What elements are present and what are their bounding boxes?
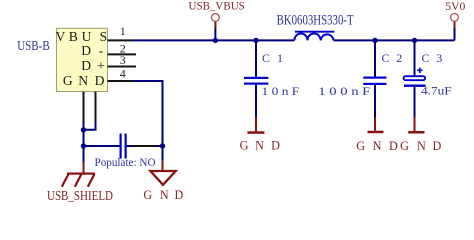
capacitor C2 bottom plate xyxy=(363,83,386,85)
capacitor C3 bottom plate xyxy=(404,85,426,87)
connector J USB-B body xyxy=(57,28,108,91)
wire populate cap left xyxy=(84,145,120,147)
wire C3 lower stem red xyxy=(414,117,416,131)
svg-text:USB_VBUS: USB_VBUS xyxy=(189,0,245,13)
svg-text:3: 3 xyxy=(120,53,126,67)
svg-text:1: 1 xyxy=(277,51,283,65)
wire left shield pin down xyxy=(83,122,85,163)
svg-text:D: D xyxy=(81,58,91,73)
svg-text:D: D xyxy=(175,188,184,202)
power usb_shield diagonal 2 xyxy=(75,174,82,187)
inductor L1 top bar xyxy=(295,31,334,33)
capacitor C3 top plate pill xyxy=(404,76,426,80)
wire C2 lower stem blue xyxy=(374,85,376,117)
svg-text:1: 1 xyxy=(120,24,126,38)
svg-text:4: 4 xyxy=(120,66,126,80)
svg-text:-: - xyxy=(99,43,104,58)
port USB_VBUS circle xyxy=(212,14,220,22)
capacitor C2 top plate xyxy=(363,77,386,79)
svg-text:USB-B: USB-B xyxy=(17,39,50,54)
wire USB_VBUS port stem blue xyxy=(214,28,216,41)
svg-text:N: N xyxy=(160,188,169,202)
wire populate cap right black segment xyxy=(134,145,155,147)
svg-text:D: D xyxy=(389,139,398,153)
svg-text:D: D xyxy=(271,138,280,152)
svg-text:2: 2 xyxy=(396,51,402,65)
port 5V0 circle xyxy=(451,14,459,22)
junction dot C3 xyxy=(412,38,417,43)
junction dot shield jog xyxy=(81,127,86,132)
svg-text:S: S xyxy=(100,29,108,44)
power usb_shield bar xyxy=(67,173,95,175)
svg-text:5V0: 5V0 xyxy=(445,0,465,13)
designator C1 xyxy=(262,51,283,65)
pin name VBUS xyxy=(55,29,107,44)
wire populate cap right blue to tee xyxy=(155,145,163,147)
svg-text:G: G xyxy=(63,73,73,88)
wire VBUS rail left segment xyxy=(132,39,295,41)
wire C3 lower stem blue xyxy=(414,87,416,117)
wire C2 upper stem xyxy=(374,40,376,76)
wire C1 lower stem blue xyxy=(255,85,257,117)
svg-text:N: N xyxy=(373,139,382,153)
net label GND triangle xyxy=(143,188,183,202)
net label GND C3 xyxy=(400,139,441,153)
svg-text:USB_SHIELD: USB_SHIELD xyxy=(47,189,113,204)
junction dot C2 xyxy=(372,38,377,43)
designator C2 xyxy=(382,51,403,65)
svg-text:V: V xyxy=(55,29,65,44)
junction dot populate tee xyxy=(81,143,86,148)
svg-text:C: C xyxy=(262,51,270,65)
svg-text:+: + xyxy=(97,58,105,73)
svg-text:G: G xyxy=(356,139,365,153)
wire C2 lower stem red xyxy=(374,117,376,131)
svg-text:D: D xyxy=(432,139,441,153)
svg-text:N: N xyxy=(255,138,264,152)
wire shield stem red xyxy=(83,163,85,173)
pin 3 stub xyxy=(108,66,137,68)
capacitor C1 top plate xyxy=(244,77,268,79)
junction dot gnd tee xyxy=(160,143,165,148)
capacitor populate right plate xyxy=(125,134,127,159)
svg-text:B: B xyxy=(69,29,78,44)
svg-text:N: N xyxy=(417,139,426,153)
svg-text:3: 3 xyxy=(436,51,442,65)
designator C3 xyxy=(422,51,443,65)
capacitor C1 bottom plate xyxy=(244,83,268,85)
svg-text:N: N xyxy=(78,73,88,88)
pin name GND xyxy=(63,73,105,88)
svg-text:1 0 0 n F: 1 0 0 n F xyxy=(318,86,370,98)
junction dot VBUS port xyxy=(213,38,218,43)
wire 5V0 riser xyxy=(454,28,456,41)
pin 2 stub xyxy=(108,53,137,55)
pin 1 stub xyxy=(108,39,134,41)
svg-text:Populate: NO: Populate: NO xyxy=(95,155,156,169)
wire C3 upper stem xyxy=(414,40,416,76)
svg-text:C: C xyxy=(422,51,430,65)
pin 5 shield stub left xyxy=(83,92,85,122)
wire right shield pin down xyxy=(83,122,96,130)
wire pin4 to gnd corner xyxy=(134,81,163,146)
power usb_shield diagonal 3 xyxy=(88,174,95,187)
power gnd bar C3 xyxy=(408,131,424,134)
pin 4 stub xyxy=(108,80,137,82)
wire gnd triangle stem red xyxy=(162,161,164,171)
wire C1 upper stem xyxy=(255,40,257,77)
svg-text:C: C xyxy=(382,51,390,65)
svg-text:G: G xyxy=(143,188,152,202)
net label GND C1 xyxy=(240,138,281,152)
wire USB_VBUS port stem red xyxy=(214,21,216,27)
svg-text:D: D xyxy=(81,43,91,58)
pin name D+ xyxy=(81,58,105,73)
svg-text:U: U xyxy=(82,29,92,44)
power gnd bar C1 xyxy=(247,131,264,134)
junction dot C1 xyxy=(253,38,258,43)
capacitor populate left plate xyxy=(120,134,122,159)
wire C1 lower stem red xyxy=(255,117,257,131)
svg-text:4.7uF: 4.7uF xyxy=(421,86,452,98)
power gnd triangle xyxy=(150,171,175,185)
svg-text:BK0603HS330-T: BK0603HS330-T xyxy=(277,13,354,29)
inductor L1 arcs xyxy=(294,34,333,41)
wire populate cap right blue nub xyxy=(127,145,134,147)
svg-text:G: G xyxy=(240,139,249,153)
wire 5V0 port stem red xyxy=(454,21,456,27)
net label GND C2 xyxy=(356,139,398,153)
svg-text:1 0 n F: 1 0 n F xyxy=(262,86,300,98)
wire VBUS rail right segment xyxy=(334,39,455,41)
capacitor C3 plus sign xyxy=(417,68,422,73)
wire gnd triangle stem blue xyxy=(162,146,164,161)
pin name D- xyxy=(81,43,103,58)
pin 6 shield stub right xyxy=(95,92,97,122)
svg-text:D: D xyxy=(95,73,105,88)
power gnd bar C2 xyxy=(368,131,384,134)
svg-text:G: G xyxy=(400,139,409,153)
power usb_shield diagonal 1 xyxy=(62,174,69,187)
